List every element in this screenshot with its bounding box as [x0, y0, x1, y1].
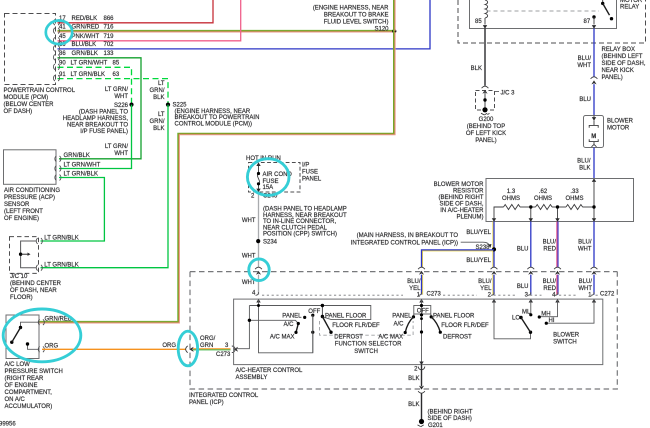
svg-text:A/C: A/C: [393, 322, 404, 328]
PCM: Powertrain Control Module (dashed box): [5, 14, 56, 85]
svg-text:99956: 99956: [0, 422, 16, 428]
wire BLU/RED from resistor to C272 pin 4: [556, 222, 558, 268]
J/C 10 pin connectors: [36, 238, 42, 244]
annotation ellipse around A/C low pressure switch: [3, 309, 81, 362]
svg-text:(BEHIND CENTER: (BEHIND CENTER: [10, 281, 62, 287]
svg-text:(ENGINE HARNESS, NEAR: (ENGINE HARNESS, NEAR: [175, 109, 251, 115]
annotation circle around ORG in-line connector: [178, 331, 197, 366]
svg-text:ACCUMULATOR): ACCUMULATOR): [5, 404, 53, 410]
svg-text:OHMS: OHMS: [566, 196, 584, 202]
svg-text:TO IN-LINE CONNECTOR,: TO IN-LINE CONNECTOR,: [263, 219, 336, 225]
connector face line C273/C272 (dashed): [262, 294, 599, 296]
bank1 inner loop from WHT down to OFF contact: [259, 306, 313, 353]
ACP: air conditioning pressure sensor box: [4, 150, 57, 185]
blower motor relay (solid box, cut off at top): [470, 0, 617, 29]
svg-text:S120: S120: [374, 26, 389, 32]
svg-text:I/P: I/P: [302, 163, 309, 169]
svg-text:HARNESS, NEAR BREAKOUT: HARNESS, NEAR BREAKOUT: [263, 213, 347, 219]
svg-text:LT GRN/: LT GRN/: [105, 144, 128, 150]
wire BLU/BLK from motor to resistor: [593, 148, 595, 179]
svg-text:PANEL: PANEL: [282, 314, 302, 320]
svg-text:BLU/: BLU/: [543, 240, 557, 246]
svg-text:WHT: WHT: [578, 247, 592, 253]
svg-text:COMPARTMENT,: COMPARTMENT,: [5, 390, 53, 396]
in-line connectors at ICP top edge (C273 pin1, C272 pins 2,3,4,1): [418, 267, 425, 275]
svg-text:S225: S225: [173, 103, 188, 109]
ground G201: [419, 419, 424, 424]
svg-text:A/C MAX: A/C MAX: [378, 334, 403, 340]
svg-text:ORG/: ORG/: [200, 336, 216, 342]
wire BLU from resistor to C272 pin 3: [530, 222, 532, 268]
relay box (dashed) top right: [458, 0, 646, 43]
annotation circle around PCM pins 41/45: [46, 21, 72, 45]
svg-text:PANEL): PANEL): [602, 75, 623, 81]
bank1 PANEL FLOOR bubble: [322, 306, 370, 320]
svg-text:(BELOW CENTER: (BELOW CENTER: [4, 102, 55, 108]
svg-text:BLOWER: BLOWER: [607, 119, 634, 125]
A/C low pressure switch box: [6, 315, 39, 359]
bank1 A/C to A/C MAX arm: [296, 324, 298, 333]
svg-text:PANEL: PANEL: [392, 314, 412, 320]
svg-text:86: 86: [59, 51, 66, 57]
function selector bank 2 fed by BLU/YEL: [414, 299, 431, 365]
svg-text:OHMS: OHMS: [502, 196, 520, 202]
svg-text:LT: LT: [158, 81, 165, 87]
blower switch: [494, 299, 594, 339]
svg-text:BLU/: BLU/: [577, 159, 591, 165]
svg-text:M: M: [591, 134, 596, 140]
svg-text:PANEL): PANEL): [475, 138, 496, 144]
svg-text:85: 85: [113, 61, 120, 67]
svg-text:BLU/: BLU/: [579, 279, 593, 285]
svg-text:OF ENGINE): OF ENGINE): [4, 216, 39, 222]
svg-text:WHT: WHT: [578, 286, 592, 292]
svg-text:BLU/: BLU/: [578, 56, 592, 62]
svg-text:LT GRN/BLK: LT GRN/BLK: [64, 172, 98, 178]
svg-text:NEAR KICK: NEAR KICK: [602, 68, 634, 74]
svg-text:OFF: OFF: [417, 309, 429, 315]
wire LT GRN/BLK from ACP pin 3 down to J/C 10: [41, 178, 105, 242]
svg-text:BLOWER: BLOWER: [553, 333, 580, 339]
svg-text:I/P FUSE PANEL): I/P FUSE PANEL): [80, 129, 128, 135]
svg-text:GRN/BLK: GRN/BLK: [64, 153, 90, 159]
svg-text:FLUID LEVEL SWITCH): FLUID LEVEL SWITCH): [324, 20, 389, 26]
svg-text:LT GRN/WHT: LT GRN/WHT: [64, 163, 101, 169]
svg-text:WHT: WHT: [242, 280, 256, 286]
wire ORG from low pressure switch to ICP: [42, 348, 186, 350]
svg-text:POSITION (CPP) SWITCH): POSITION (CPP) SWITCH): [263, 232, 337, 238]
blower motor: [584, 116, 604, 148]
svg-text:YEL: YEL: [409, 286, 421, 292]
svg-text:SENSOR: SENSOR: [4, 202, 30, 208]
svg-text:LT GRN/: LT GRN/: [105, 87, 128, 93]
blower motor resistor box: [486, 179, 634, 222]
fuse: AIR COND FUSE 15A in I/P fuse panel (dashed box): [249, 163, 301, 193]
in-line connector WHT at ICP top edge: [255, 267, 262, 275]
svg-text:BLU/: BLU/: [407, 279, 421, 285]
bank1 arm to DEFROST: [322, 317, 331, 333]
svg-text:NEAR CLUTCH PEDAL: NEAR CLUTCH PEDAL: [263, 225, 328, 231]
svg-text:RESISTOR: RESISTOR: [453, 189, 484, 195]
exit arrows at resistor box bottom: [492, 218, 496, 222]
svg-text:BREAKOUT TO POWERTRAIN: BREAKOUT TO POWERTRAIN: [175, 115, 260, 121]
svg-text:A/C-HEATER CONTROL: A/C-HEATER CONTROL: [236, 368, 304, 374]
in-line connector on BLU wire: [591, 77, 598, 85]
annotation circle around fuse: [247, 159, 289, 196]
svg-text:(BEHIND LEFT: (BEHIND LEFT: [602, 54, 643, 60]
svg-text:C273: C273: [216, 352, 231, 358]
svg-text:BLU/: BLU/: [578, 240, 592, 246]
svg-text:PANEL (ICP): PANEL (ICP): [189, 400, 224, 406]
svg-text:BLK: BLK: [153, 95, 164, 101]
svg-text:(DASH PANEL TO HEADLAMP: (DASH PANEL TO HEADLAMP: [263, 207, 347, 213]
svg-text:RED/BLK: RED/BLK: [72, 16, 98, 22]
svg-text:(RIGHT REAR: (RIGHT REAR: [5, 376, 45, 382]
wire LT GRN/BLK 63 from PCM pin 91 (dashed) to S225: [58, 79, 169, 105]
svg-text:C272: C272: [600, 292, 615, 298]
svg-text:719: 719: [104, 34, 115, 40]
wire BLK from assembly pin 2 to G201: [421, 365, 423, 386]
svg-text:MODULE (PCM): MODULE (PCM): [4, 95, 49, 101]
svg-text:PRESSURE SWITCH: PRESSURE SWITCH: [5, 369, 63, 375]
svg-text:BLU/YEL: BLU/YEL: [466, 258, 491, 264]
svg-text:SIDE OF DASH): SIDE OF DASH): [428, 416, 472, 422]
svg-text:(DASH PANEL TO: (DASH PANEL TO: [79, 110, 128, 116]
svg-text:FUSE: FUSE: [302, 170, 318, 176]
svg-text:HI: HI: [549, 318, 555, 324]
svg-text:HEADLAMP HARNESS,: HEADLAMP HARNESS,: [63, 116, 129, 122]
svg-text:SIDE OF DASH,: SIDE OF DASH,: [602, 61, 646, 67]
svg-text:RELAY: RELAY: [620, 5, 639, 11]
svg-text:LT GRN/BLK: LT GRN/BLK: [71, 72, 105, 78]
wire BLU/WHT from resistor to C272 pin 1: [593, 222, 595, 268]
svg-text:BREAKOUT TO BRAKE: BREAKOUT TO BRAKE: [324, 13, 389, 19]
svg-text:WHT: WHT: [577, 63, 591, 69]
mechanical link dashed between bank1 and bank2: [320, 321, 414, 335]
svg-text:PLENUM): PLENUM): [456, 215, 483, 221]
bank1 contacts: [303, 316, 306, 319]
switch internals: [21, 322, 40, 327]
hook arrow from ICP note to S238: [461, 242, 490, 246]
svg-text:OF DASH, NEAR: OF DASH, NEAR: [10, 288, 57, 294]
ACP pin connectors: [55, 156, 61, 162]
svg-text:702: 702: [104, 42, 115, 48]
svg-text:LO: LO: [512, 316, 520, 322]
svg-text:BLK: BLK: [153, 126, 164, 132]
svg-text:OF ENGINE: OF ENGINE: [5, 383, 38, 389]
entry arrow WHT into A/C-heater assembly: [256, 299, 260, 303]
svg-text:BLU/: BLU/: [478, 279, 492, 285]
svg-text:OF LEFT KICK: OF LEFT KICK: [466, 131, 506, 137]
svg-text:RED: RED: [543, 286, 556, 292]
svg-text:WHT: WHT: [114, 151, 128, 157]
J/C 10 junction connector box: [10, 237, 39, 274]
svg-text:63: 63: [113, 72, 120, 78]
svg-text:85: 85: [475, 19, 482, 25]
svg-text:PNK/WHT: PNK/WHT: [72, 34, 100, 40]
J/C 3 junction connector: [476, 91, 495, 111]
svg-text:GRN/: GRN/: [150, 88, 165, 94]
svg-text:MOTOR: MOTOR: [620, 0, 643, 4]
svg-text:BLU/: BLU/: [543, 279, 557, 285]
resistor chain: [494, 182, 594, 222]
wire GRN/RED 716 from PCM pin 41 to S120: [58, 29, 395, 31]
relay mechanical link (dashed): [487, 10, 600, 12]
svg-text:NEAR BREAKOUT TO: NEAR BREAKOUT TO: [67, 123, 128, 129]
svg-text:BLK: BLK: [408, 376, 419, 382]
svg-text:INTEGRATED CONTROL: INTEGRATED CONTROL: [189, 393, 259, 399]
svg-text:FLOOR): FLOOR): [10, 295, 33, 301]
svg-text:BLU: BLU: [579, 97, 591, 103]
wire BLU/WHT from relay 87 to blower motor: [593, 29, 595, 77]
ICP integrated control panel (dashed box): [190, 272, 617, 389]
wire GRN/BLK 133 from PCM pin 86 to ACP sensor: [58, 58, 142, 159]
wire foot hooks at connector face: [256, 292, 595, 295]
svg-text:BLK: BLK: [579, 166, 590, 172]
svg-text:90: 90: [59, 61, 66, 67]
svg-text:LT GRN/BLK: LT GRN/BLK: [44, 236, 78, 242]
svg-text:866: 866: [104, 16, 115, 22]
wire WHT from fuse to ICP: [258, 193, 260, 268]
PCM pin connectors and labels: [59, 16, 120, 78]
svg-text:GRN/RED: GRN/RED: [72, 25, 100, 31]
svg-text:SWITCH: SWITCH: [354, 349, 378, 355]
svg-text:DEFROST: DEFROST: [443, 334, 472, 340]
svg-text:OHMS: OHMS: [534, 196, 552, 202]
low pressure switch pin connectors: [38, 319, 44, 325]
svg-text:BLU: BLU: [517, 247, 529, 253]
svg-text:RELAY BOX: RELAY BOX: [602, 47, 635, 53]
svg-text:WHT: WHT: [242, 254, 256, 260]
annotation circle around WHT in-line connector: [249, 259, 269, 281]
svg-text:MH: MH: [541, 312, 550, 318]
svg-text:133: 133: [104, 51, 115, 57]
node S225 splice: [166, 103, 170, 107]
wire BLU/YEL branch from S238 to C273 pin 1: [423, 251, 494, 267]
svg-text:ASSEMBLY: ASSEMBLY: [236, 375, 268, 381]
fuse element symbol: [257, 166, 259, 192]
wire PNK/WHT 719 from PCM pin 45: [58, 0, 241, 41]
svg-text:LT: LT: [158, 112, 165, 118]
svg-text:S238: S238: [475, 245, 490, 251]
svg-text:ORG: ORG: [162, 343, 176, 349]
svg-text:GRN/BLK: GRN/BLK: [72, 51, 98, 57]
svg-text:(MAIN HARNESS, IN BREAKOUT TO: (MAIN HARNESS, IN BREAKOUT TO: [357, 233, 459, 239]
svg-text:716: 716: [104, 25, 115, 31]
wire LT GRN/WHT 85 from PCM pin 90 (dashed) to S226: [58, 67, 132, 104]
svg-text:INTEGRATED CONTROL PANEL (ICP): INTEGRATED CONTROL PANEL (ICP)): [351, 240, 458, 246]
svg-text:OF DASH): OF DASH): [4, 109, 33, 115]
svg-text:AIR CONDITIONING: AIR CONDITIONING: [4, 188, 60, 194]
svg-text:BLU/BLK: BLU/BLK: [72, 42, 97, 48]
relay coil: [485, 0, 488, 25]
svg-text:A/C: A/C: [283, 322, 294, 328]
bank1 rail to A/C contact: [249, 320, 298, 323]
wire RED/BLK 866 from PCM pin 17: [58, 0, 214, 23]
svg-text:GRN/: GRN/: [150, 119, 165, 125]
svg-text:1.3: 1.3: [507, 189, 516, 195]
svg-text:S226: S226: [114, 103, 129, 109]
PCM pin connector symbols: [53, 19, 59, 25]
svg-text:MOTOR: MOTOR: [607, 126, 630, 132]
wire BLU/YEL from resistor to C272 pin 2 with S238: [492, 222, 494, 268]
svg-text:C273: C273: [427, 292, 442, 298]
svg-text:(BEHIND RIGHT: (BEHIND RIGHT: [428, 410, 473, 416]
svg-text:G201: G201: [428, 423, 443, 428]
svg-text:SIDE OF DASH,: SIDE OF DASH,: [439, 202, 483, 208]
node S234 splice: [256, 239, 260, 243]
svg-text:S234: S234: [263, 240, 278, 246]
svg-text:A/C LOW: A/C LOW: [5, 362, 31, 368]
wire GRN/RED from S120 down-left to A/C low pressure switch: [40, 31, 394, 321]
wire LT GRN/WHT solid from S226 to ACP sensor: [59, 105, 132, 169]
svg-text:41: 41: [59, 25, 66, 31]
svg-text:GRN: GRN: [200, 343, 213, 349]
node S226 splice: [129, 103, 133, 107]
entry arrows into assembly box: [419, 299, 423, 303]
node S120 junction on GRN/RED: [392, 29, 396, 33]
svg-text:G200: G200: [479, 117, 494, 123]
svg-text:BLU: BLU: [517, 284, 529, 290]
svg-text:87: 87: [584, 19, 591, 25]
connector at A/C-heater box edge for ORG: [232, 346, 238, 353]
svg-text:FUNCTION SELECTOR: FUNCTION SELECTOR: [335, 342, 402, 348]
svg-text:WHT: WHT: [114, 94, 128, 100]
svg-text:A/C MAX: A/C MAX: [270, 335, 295, 341]
svg-text:15A: 15A: [263, 185, 274, 191]
svg-text:RED: RED: [543, 247, 556, 253]
svg-text:BLU/YEL: BLU/YEL: [466, 230, 491, 236]
svg-text:45: 45: [59, 34, 66, 40]
svg-text:ON A/C: ON A/C: [5, 397, 26, 403]
svg-text:OFF: OFF: [308, 309, 320, 315]
svg-text:LT GRN/WHT: LT GRN/WHT: [71, 61, 108, 67]
in-line connector ORG at ICP left edge: [186, 346, 194, 353]
svg-text:(BEHIND TOP: (BEHIND TOP: [467, 124, 505, 130]
svg-text:SWITCH: SWITCH: [553, 340, 577, 346]
relay switch contact: [602, 0, 604, 3]
svg-text:.33: .33: [570, 189, 579, 195]
svg-text:J/C 10: J/C 10: [10, 274, 28, 280]
svg-text:PANEL FLOOR: PANEL FLOOR: [325, 314, 367, 320]
svg-text:J/C 3: J/C 3: [501, 91, 516, 97]
svg-text:BLK: BLK: [408, 402, 419, 408]
svg-text:BLK: BLK: [471, 66, 482, 72]
svg-text:(LEFT FRONT: (LEFT FRONT: [4, 209, 43, 215]
svg-text:FLOOR FLR/DEF: FLOOR FLR/DEF: [441, 323, 489, 329]
svg-text:PANEL: PANEL: [302, 177, 322, 183]
svg-text:.62: .62: [539, 189, 548, 195]
svg-text:PRESSURE (ACP): PRESSURE (ACP): [4, 195, 55, 201]
svg-text:LT GRN/BLK: LT GRN/BLK: [44, 263, 78, 269]
function selector bank 1: feed rail from WHT: [234, 299, 323, 353]
svg-text:ORG: ORG: [45, 344, 59, 350]
svg-text:(BEHIND RIGHT: (BEHIND RIGHT: [439, 195, 484, 201]
svg-text:CONTROL MODULE (PCM)): CONTROL MODULE (PCM)): [175, 121, 252, 127]
A/C-heater control assembly box: [234, 299, 603, 365]
wire BLU/BLK 702 from PCM pin 69: [58, 0, 431, 49]
svg-text:(ENGINE HARNESS, NEAR: (ENGINE HARNESS, NEAR: [313, 5, 389, 11]
wire LT GRN/BLK solid from S225 down to J/C 10: [41, 105, 169, 268]
svg-text:POWERTRAIN CONTROL: POWERTRAIN CONTROL: [4, 88, 76, 94]
svg-text:YEL: YEL: [480, 286, 492, 292]
svg-text:IN A/C-HEATER: IN A/C-HEATER: [440, 208, 484, 214]
svg-text:BLOWER MOTOR: BLOWER MOTOR: [434, 182, 485, 188]
svg-text:WHT: WHT: [242, 218, 256, 224]
svg-text:PANEL FLOOR: PANEL FLOOR: [433, 314, 475, 320]
wire BLK from relay 85 to G200: [484, 29, 486, 86]
svg-text:ML: ML: [522, 310, 531, 316]
ground G200: [482, 107, 487, 112]
bank2 arms: [405, 317, 413, 333]
svg-text:FLOOR FLR/DEF: FLOOR FLR/DEF: [332, 323, 380, 329]
svg-text:91: 91: [59, 72, 66, 78]
